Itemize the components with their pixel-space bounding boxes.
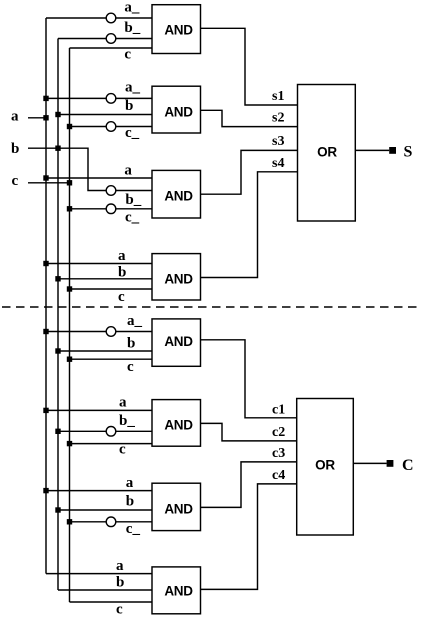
inverter bubble AND2 a_ <box>106 94 116 104</box>
svg-text:c: c <box>119 442 126 458</box>
svg-text:s1: s1 <box>272 89 284 104</box>
svg-text:C: C <box>402 457 414 474</box>
svg-text:c: c <box>118 289 125 305</box>
inverter bubble AND6 b_ <box>106 427 116 437</box>
junction dot bus a / AND7 a <box>43 488 48 493</box>
input c stub wire <box>28 182 70 184</box>
svg-text:b: b <box>125 98 133 114</box>
wire AND8 input a <box>46 573 152 575</box>
inverter bubble AND7 c_ <box>106 517 116 527</box>
junction dot bus b / AND4 b <box>55 276 60 281</box>
wire AND7 input b <box>58 509 152 511</box>
svg-text:a_: a_ <box>124 0 139 15</box>
wire AND1 input b_ <box>58 38 152 40</box>
wire AND3 output to s3 <box>201 150 298 194</box>
wire AND1 input a_ <box>46 17 152 19</box>
wire bus b vertical <box>57 39 59 591</box>
wire AND8 input b <box>58 589 152 591</box>
junction dot bus a / input a <box>43 115 48 120</box>
svg-text:AND: AND <box>164 501 193 516</box>
svg-text:OR: OR <box>317 144 337 159</box>
junction dot bus c / AND4 c <box>67 286 72 291</box>
wire AND2 input c_ <box>70 126 153 128</box>
junction dot bus c / AND3 c_ <box>67 206 72 211</box>
junction dot bus c / AND7 c_ <box>67 519 72 524</box>
wire AND2 output to s2 <box>201 110 298 126</box>
OR gate 2 <box>297 399 354 536</box>
svg-text:AND: AND <box>164 104 193 119</box>
svg-text:a_: a_ <box>125 79 141 95</box>
input b stub wire with jog to AND3 b_ <box>28 148 152 190</box>
junction dot bus a / AND4 a <box>43 261 48 266</box>
inverter bubble AND2 c_ <box>106 122 116 132</box>
junction dot bus b / AND6 b_ <box>55 429 60 434</box>
wire AND3 input a <box>46 177 152 179</box>
AND gate 1 <box>152 5 201 54</box>
inverter bubble AND1 a_ <box>106 13 116 23</box>
svg-text:c_: c_ <box>125 125 140 141</box>
wire AND4 output to s4 <box>201 172 298 278</box>
svg-text:s2: s2 <box>272 111 284 126</box>
svg-text:AND: AND <box>164 334 193 349</box>
svg-text:c: c <box>124 46 131 62</box>
wire AND8 output to c4 <box>201 484 297 590</box>
svg-text:b: b <box>126 493 134 509</box>
wire bus c vertical <box>69 48 71 602</box>
junction dot bus c / input c <box>67 180 72 185</box>
wire AND6 output to c2 <box>201 423 298 441</box>
junction dot bus a / AND6 a <box>43 408 48 413</box>
svg-text:AND: AND <box>164 583 193 598</box>
svg-text:AND: AND <box>164 417 193 432</box>
wire output S <box>355 149 389 151</box>
dashed separator line <box>2 306 420 308</box>
svg-text:AND: AND <box>164 188 193 203</box>
junction dot bus c / AND5 c <box>67 357 72 362</box>
wire AND6 input a <box>46 409 152 411</box>
wire AND5 input b <box>58 350 152 352</box>
svg-text:b_: b_ <box>125 192 141 208</box>
inverter bubble AND3 b_ <box>106 186 116 196</box>
inverter bubble AND5 a_ <box>106 327 116 337</box>
wire AND7 input a <box>46 490 152 492</box>
wire output C <box>353 462 386 464</box>
svg-text:a: a <box>126 475 134 491</box>
svg-text:c1: c1 <box>272 403 285 418</box>
junction dot bus a / AND3 a <box>43 175 48 180</box>
junction dot bus b / AND5 b <box>55 348 60 353</box>
svg-text:S: S <box>404 143 413 160</box>
AND gate 3 <box>152 170 201 218</box>
svg-text:s4: s4 <box>272 156 284 171</box>
svg-text:c4: c4 <box>272 468 285 483</box>
junction dot bus c / AND2 c_ <box>67 124 72 129</box>
wire AND4 input a <box>46 263 152 265</box>
junction dot bus b / AND7 b <box>55 507 60 512</box>
svg-text:b_: b_ <box>119 413 135 429</box>
inverter bubble AND3 c_ <box>106 204 116 214</box>
wire AND4 input b <box>58 278 152 280</box>
junction dot bus a / AND2 a_ <box>43 96 48 101</box>
wire AND5 output to c1 <box>201 340 298 418</box>
AND gate 2 <box>152 86 201 133</box>
svg-text:b_: b_ <box>124 20 140 36</box>
svg-text:c: c <box>12 173 19 189</box>
AND gate 5 <box>152 319 201 366</box>
input a stub wire <box>28 117 46 119</box>
svg-text:a: a <box>118 248 126 264</box>
wire AND7 output to c3 <box>201 462 297 508</box>
svg-text:b: b <box>116 574 124 590</box>
svg-text:OR: OR <box>315 457 335 472</box>
terminal square output C <box>387 460 394 467</box>
AND gate 4 <box>152 254 201 300</box>
junction dot bus b / AND2 b <box>55 112 60 117</box>
junction dot bus b / input b <box>55 146 60 151</box>
svg-text:c: c <box>116 602 123 618</box>
wire AND3 input c_ <box>70 208 153 210</box>
svg-text:b: b <box>127 335 135 351</box>
wire AND8 input c <box>70 601 153 603</box>
AND gate 8 <box>152 567 201 614</box>
wire AND1 output to s1 <box>201 28 298 105</box>
wire AND1 input c <box>70 47 153 49</box>
wire AND5 input a_ <box>46 331 152 333</box>
inverter bubble AND1 b_ <box>106 34 116 44</box>
wire AND5 input c <box>70 358 153 360</box>
svg-text:a: a <box>124 162 132 178</box>
svg-text:c_: c_ <box>125 210 140 226</box>
svg-text:AND: AND <box>164 23 193 38</box>
wire AND6 input c <box>70 443 153 445</box>
svg-text:b: b <box>118 265 126 281</box>
junction dot bus a / AND5 a_ <box>43 329 48 334</box>
svg-text:c: c <box>127 359 134 375</box>
wire AND2 input a_ <box>46 97 152 99</box>
svg-text:a: a <box>119 395 127 411</box>
svg-text:c_: c_ <box>126 521 141 537</box>
svg-text:b: b <box>11 141 19 157</box>
wire AND6 input b_ <box>58 430 152 432</box>
svg-text:c2: c2 <box>272 425 285 440</box>
wire AND2 input b <box>58 114 152 116</box>
AND gate 7 <box>152 483 201 530</box>
wire AND7 input c_ <box>70 521 153 523</box>
terminal square output S <box>389 147 396 154</box>
OR gate 1 <box>298 85 356 222</box>
wire bus a vertical <box>45 18 47 574</box>
wire AND4 input c <box>70 288 153 290</box>
svg-text:a: a <box>116 558 124 574</box>
svg-text:a: a <box>11 108 19 124</box>
svg-text:a_: a_ <box>127 313 143 329</box>
junction dot bus c / AND6 c <box>67 441 72 446</box>
svg-text:c3: c3 <box>272 446 285 461</box>
AND gate 6 <box>152 400 201 447</box>
svg-text:s3: s3 <box>272 134 284 149</box>
svg-text:AND: AND <box>164 272 193 287</box>
